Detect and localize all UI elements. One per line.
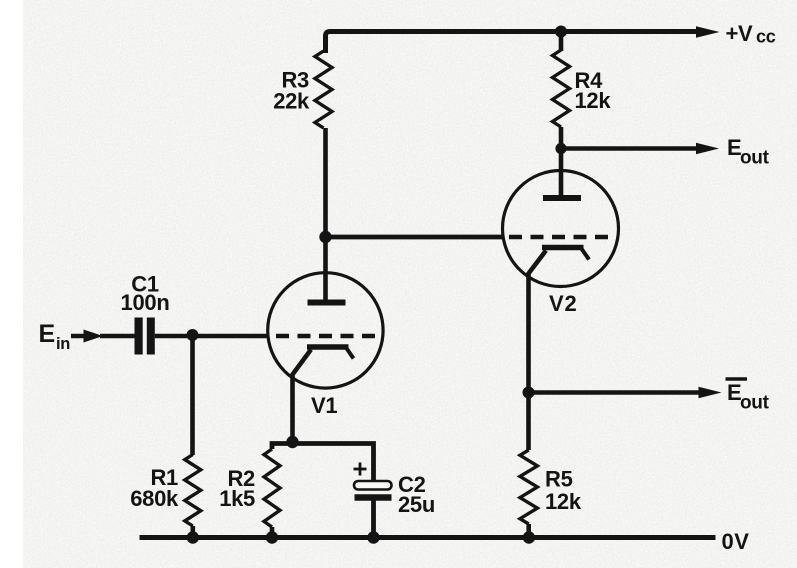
wire Eout [561, 146, 700, 151]
wire R5 bottom to 0V rail [526, 524, 531, 538]
wire V1 cathode lead down [293, 350, 312, 445]
svg-text:out: out [740, 393, 770, 414]
svg-text:22k: 22k [273, 89, 310, 114]
svg-text:out: out [740, 148, 770, 169]
resistor R1 [185, 455, 201, 527]
label Ein [39, 320, 71, 353]
node junction R1/0V [187, 531, 199, 543]
resistor R3 [315, 51, 332, 128]
wire V2 cathode lead down [529, 251, 547, 451]
node junction R3/V2 grid [319, 231, 331, 243]
resistor R4 [553, 50, 570, 127]
label R4 value 12k [575, 68, 612, 113]
svg-text:0V: 0V [722, 529, 750, 554]
label R2 value 1k5 [219, 466, 255, 511]
label +Vcc [726, 21, 776, 47]
triode V2 envelope [503, 171, 619, 287]
node junction R2/0V [266, 531, 278, 543]
svg-text:in: in [56, 335, 70, 353]
resistor R2 [264, 449, 280, 527]
arrow Ein [84, 330, 104, 343]
label R1 value 680k [130, 465, 179, 511]
capacitor C2 plus sign [354, 463, 367, 476]
wire R2 bottom [270, 527, 275, 538]
label R3 value 22k [273, 68, 310, 114]
wire R4 bottom to Eout node [559, 127, 564, 149]
node junction V1 cathode / R2 / C2 [286, 436, 298, 448]
wire R1 top drop [190, 335, 195, 455]
resistor R5 [520, 450, 537, 524]
wire Ebar-out [529, 390, 703, 395]
svg-text:+V: +V [726, 21, 754, 46]
label C2 value 25u [398, 472, 435, 517]
svg-text:cc: cc [756, 27, 776, 47]
capacitor C2 bottom plate [355, 494, 392, 500]
V1 cathode bar [307, 344, 349, 349]
V1 anode plate bar [308, 300, 346, 306]
svg-text:12k: 12k [545, 489, 582, 514]
capacitor C1 right plate [147, 318, 155, 355]
node junction Ebar-out [523, 387, 535, 399]
svg-text:1k5: 1k5 [219, 486, 255, 511]
node junction R5/0V [523, 531, 535, 543]
wire Ein lead [71, 334, 88, 338]
label Ebar-out [726, 379, 770, 414]
svg-text:680k: 680k [130, 486, 179, 511]
wire V1 anode node to V2 grid [326, 235, 503, 240]
wire R4 top [559, 32, 564, 52]
label Eout [727, 135, 770, 169]
paper texture [0, 0, 1, 1]
node junction Ein/R1 [187, 329, 199, 341]
V1 cathode hook [346, 348, 354, 359]
svg-text:100n: 100n [121, 290, 170, 315]
wire R3 bottom to V1 anode [323, 128, 328, 300]
node junction C2/0V [367, 531, 379, 543]
wire V2 anode lead [559, 149, 564, 196]
arrow Eout [696, 143, 719, 155]
node junction Eout [555, 143, 566, 154]
arrow Ebar-out [699, 387, 722, 399]
triode V1 envelope [268, 273, 383, 388]
wire 0V bottom rail [140, 535, 716, 540]
label C1 value 100n [121, 272, 170, 316]
svg-text:E: E [39, 320, 55, 348]
wire C2 bottom lead [371, 501, 376, 538]
wire +Vcc top rail [326, 32, 701, 54]
V2 grid (dashed) [509, 235, 608, 239]
capacitor C2 top plate (hollow) [354, 481, 392, 490]
V2 cathode bar [542, 245, 584, 250]
wire cathode net horizontal [272, 444, 374, 481]
svg-text:R5: R5 [545, 467, 573, 492]
V2 cathode hook [581, 248, 589, 260]
capacitor C1 left plate [135, 318, 143, 355]
node junction R4/+Vcc rail [555, 26, 567, 38]
arrow +Vcc [696, 26, 720, 38]
left white margin strip [0, 0, 23, 568]
wire C1 to V1 grid [155, 334, 268, 339]
wire R1 bottom [191, 526, 196, 538]
V1 grid (dashed) [276, 334, 377, 338]
wire Ein arrow to C1 [100, 334, 135, 338]
svg-text:V1: V1 [311, 393, 337, 418]
svg-text:25u: 25u [398, 492, 435, 517]
label R5 value 12k [545, 467, 582, 515]
svg-text:12k: 12k [575, 88, 612, 113]
V2 anode plate bar [543, 195, 581, 201]
svg-text:V2: V2 [549, 291, 578, 316]
